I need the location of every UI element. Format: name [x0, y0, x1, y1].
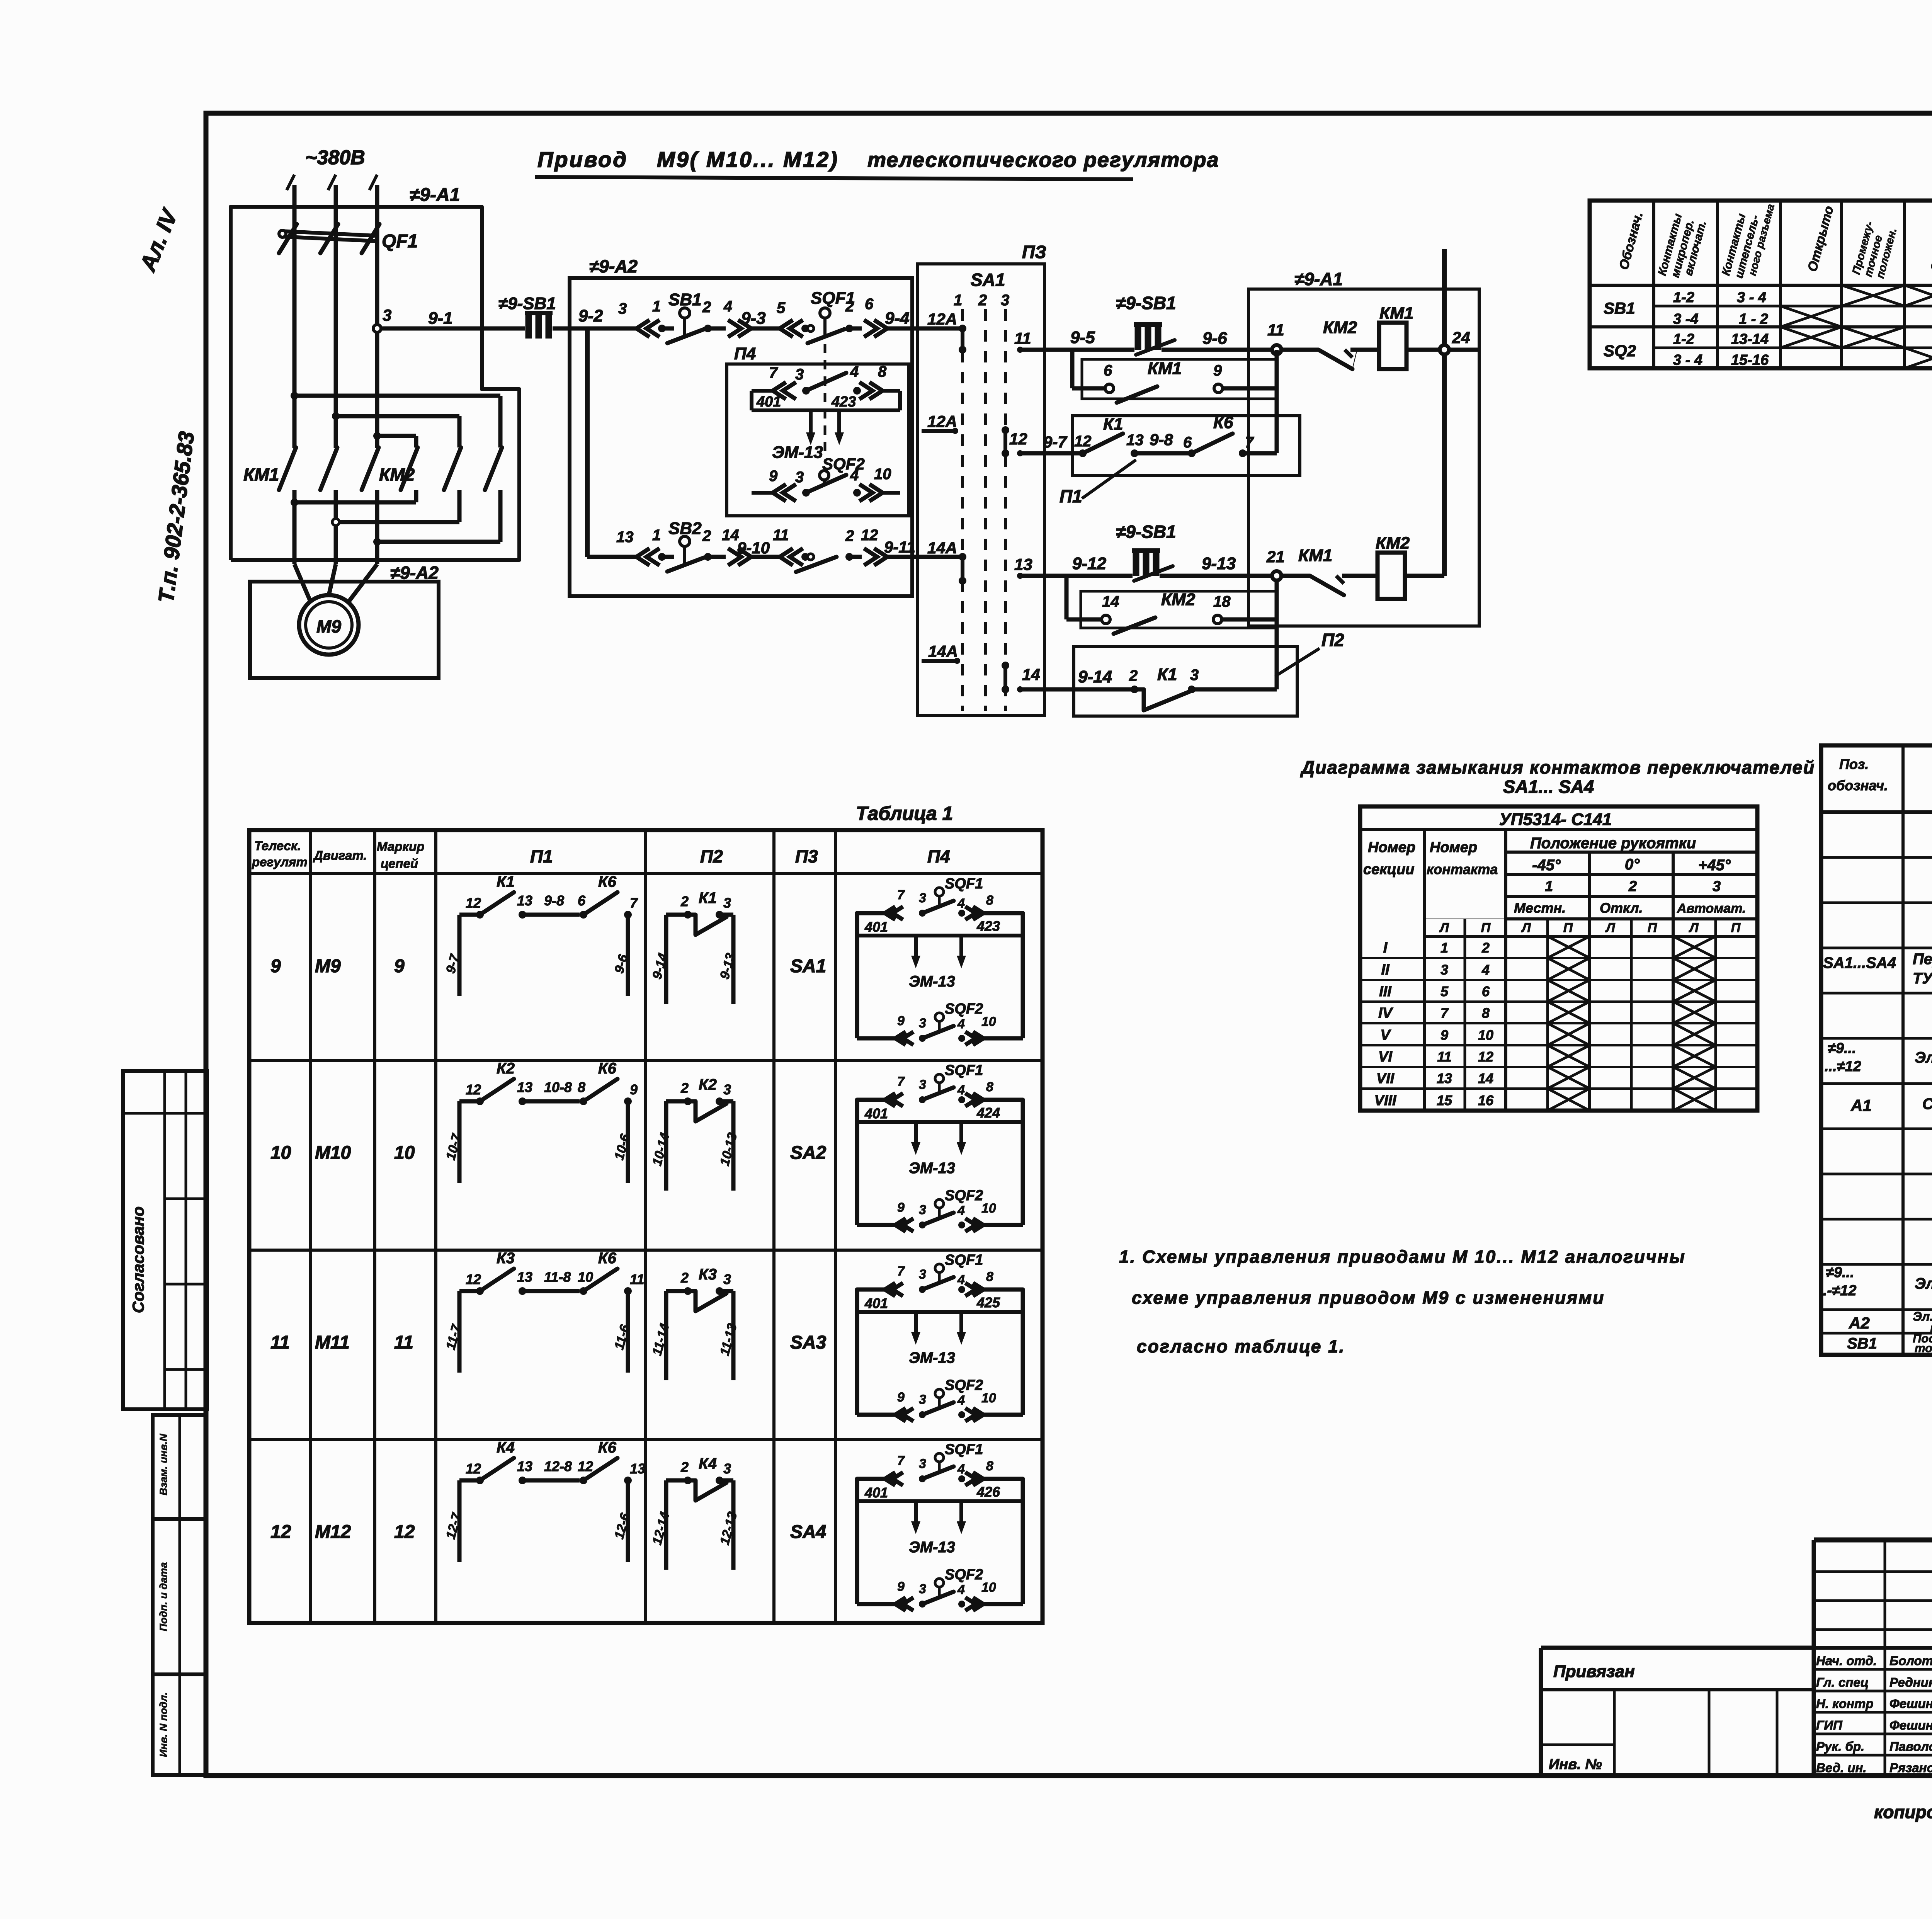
contactor coil KM1: [1379, 304, 1413, 369]
diagram table УП5314-С141: [1360, 806, 1757, 1111]
contact diagram caption: [1300, 757, 1815, 797]
svg-text:КМ2: КМ2: [1376, 534, 1410, 553]
svg-text:12-14: 12-14: [650, 1510, 672, 1546]
svg-text:К1: К1: [1103, 415, 1123, 434]
row 10 labels: [270, 1143, 827, 1163]
svg-text:13: 13: [517, 1079, 532, 1095]
svg-text:Согласовано: Согласовано: [129, 1206, 147, 1313]
svg-text:SQF2: SQF2: [945, 1567, 983, 1583]
wire to SB1: [662, 327, 674, 331]
svg-text:1: 1: [652, 298, 661, 315]
svg-text:КМ2: КМ2: [379, 464, 415, 485]
svg-text:13: 13: [630, 1461, 645, 1477]
svg-text:SA1... SA4: SA1... SA4: [1503, 776, 1594, 797]
row 12 labels: [270, 1522, 826, 1542]
wire 9-13 to node 21: [1160, 554, 1277, 576]
svg-text:10: 10: [874, 466, 891, 483]
svg-text:7: 7: [897, 1074, 905, 1089]
wire 11 / 9-5: [1014, 328, 1134, 353]
svg-text:11: 11: [630, 1271, 644, 1287]
svg-text:2: 2: [845, 527, 854, 544]
svg-text:SA1: SA1: [790, 956, 826, 977]
connector П1 box: [1060, 416, 1300, 506]
row 12 П2 circuit: [650, 1455, 740, 1570]
svg-text:12: 12: [578, 1458, 593, 1474]
riser wire at node 24: [1442, 249, 1447, 576]
margin label T.п.902-2-365.83: [153, 430, 199, 604]
svg-text:4: 4: [957, 1393, 965, 1408]
svg-text:SQF1: SQF1: [945, 1252, 983, 1268]
svg-text:10: 10: [394, 1143, 415, 1163]
item #9...#12 local: [1823, 1264, 1932, 1299]
svg-text:9-12: 9-12: [1072, 554, 1107, 573]
svg-text:К6: К6: [598, 873, 617, 890]
svg-text:3: 3: [919, 1582, 926, 1596]
svg-text:2: 2: [702, 527, 711, 544]
svg-text:КМ2: КМ2: [1161, 590, 1196, 609]
svg-text:13: 13: [1437, 1070, 1452, 1086]
svg-text:10-8: 10-8: [544, 1079, 572, 1095]
svg-text:КМ1: КМ1: [243, 464, 279, 485]
svg-text:8: 8: [986, 893, 993, 908]
svg-text:согласно таблице 1.: согласно таблице 1.: [1137, 1336, 1345, 1356]
svg-text:П4: П4: [734, 344, 756, 363]
svg-text:3: 3: [919, 1267, 926, 1282]
svg-text:10: 10: [981, 1580, 996, 1595]
svg-text:Фешин: Фешин: [1889, 1718, 1932, 1732]
svg-text:3 - 4: 3 - 4: [1673, 352, 1702, 368]
svg-text:3: 3: [919, 1456, 926, 1471]
svg-text:11-8: 11-8: [544, 1269, 571, 1285]
bottom rail pins 13-1: [587, 527, 666, 565]
svg-text:18: 18: [1213, 593, 1231, 610]
svg-text:SA2: SA2: [790, 1143, 827, 1163]
svg-text:SQF1: SQF1: [945, 1062, 983, 1079]
svg-text:9-4: 9-4: [885, 309, 910, 328]
svg-text:3: 3: [919, 1077, 926, 1092]
svg-text:SQF2: SQF2: [945, 1377, 983, 1393]
svg-text:М10: М10: [315, 1143, 351, 1163]
motor assembly box #9-A2: [250, 563, 439, 678]
plug symbol #9-SB1: [498, 294, 556, 339]
socket pins 2-14 / wire 9-10: [704, 527, 770, 565]
svg-text:телескопического регулятора: телескопического регулятора: [867, 148, 1219, 172]
svg-text:+45°: +45°: [1698, 857, 1731, 874]
row 9 П2 circuit: [650, 890, 738, 1004]
svg-text:Фешин: Фешин: [1889, 1696, 1932, 1711]
svg-text:3: 3: [795, 366, 804, 383]
aux contact KM2 (NC): [1281, 318, 1379, 369]
svg-text:1-2: 1-2: [1673, 331, 1694, 347]
svg-text:10: 10: [1478, 1027, 1493, 1043]
net 12 contacts: [1002, 426, 1027, 457]
plug pins 11-1: [751, 527, 814, 565]
svg-text:КМ1: КМ1: [1379, 304, 1413, 323]
svg-text:401: 401: [864, 919, 888, 935]
svg-text:3: 3: [919, 1203, 926, 1217]
svg-text:2: 2: [680, 1459, 689, 1475]
П4 bottom contacts 9-3 / 4-10 with SQF2: [752, 377, 900, 501]
svg-text:К6: К6: [598, 1060, 617, 1077]
svg-text:6: 6: [1482, 983, 1490, 999]
svg-text:Двигат.: Двигат.: [313, 848, 367, 863]
svg-text:2: 2: [1129, 667, 1138, 684]
SQF2 blade on bottom rail: [796, 557, 837, 572]
svg-text:4: 4: [723, 298, 732, 315]
svg-text:14: 14: [722, 527, 739, 544]
svg-text:8: 8: [986, 1269, 993, 1284]
row 12 П1 circuit K contacts: [443, 1439, 645, 1562]
svg-text:14: 14: [1022, 665, 1040, 684]
svg-text:Привод: Привод: [537, 147, 628, 172]
svg-text:К4: К4: [699, 1455, 717, 1472]
svg-text:SВ1: SВ1: [1604, 299, 1635, 317]
svg-text:14: 14: [1478, 1070, 1493, 1086]
parts list table: [1821, 745, 1932, 1355]
svg-text:Номер: Номер: [1430, 839, 1477, 856]
item SB1 post: [1847, 1332, 1932, 1355]
node 21: [1266, 548, 1285, 580]
svg-text:≠9-А2: ≠9-А2: [589, 256, 638, 276]
wire 9-7 / contact K1 pins 12-13: [1017, 415, 1144, 457]
wire 9-3: [741, 309, 780, 328]
svg-text:7: 7: [897, 888, 905, 902]
svg-text:3 - 4: 3 - 4: [1737, 289, 1766, 306]
svg-text:4: 4: [957, 1017, 965, 1031]
svg-text:7: 7: [769, 364, 778, 381]
svg-text:401: 401: [864, 1485, 888, 1500]
SA1 dashed pole 1: [961, 309, 964, 711]
svg-text:9-3: 9-3: [741, 309, 766, 328]
row 10 П1 circuit K contacts: [443, 1060, 638, 1183]
svg-text:1. Схемы управления приводам: 1. Схемы управления приводами М 10... М1…: [1119, 1247, 1686, 1267]
svg-text:копировал:: копировал:: [1874, 1802, 1932, 1822]
SA1 dashed pole 2: [984, 309, 987, 711]
svg-text:1: 1: [652, 527, 661, 544]
row 9 П1 circuit K contacts: [443, 873, 638, 996]
svg-text:2: 2: [680, 1270, 689, 1286]
socket pins 2-4: [704, 298, 751, 337]
svg-text:8: 8: [578, 1079, 585, 1095]
svg-text:Рук. бр.: Рук. бр.: [1816, 1739, 1864, 1754]
svg-text:9-8: 9-8: [544, 893, 564, 908]
svg-text:SQF1: SQF1: [945, 1441, 983, 1458]
svg-text:9: 9: [769, 468, 778, 485]
svg-text:ЭМ-13: ЭМ-13: [909, 1539, 955, 1556]
svg-text:К2: К2: [699, 1076, 717, 1093]
svg-text:423: 423: [976, 918, 1000, 934]
row 11 labels: [270, 1332, 827, 1353]
svg-text:Привязан: Привязан: [1553, 1662, 1635, 1681]
svg-text:13: 13: [1014, 555, 1032, 573]
schematic note text: [1119, 1247, 1686, 1356]
svg-text:ЭМ-13: ЭМ-13: [772, 443, 823, 462]
svg-text:~380В: ~380В: [305, 146, 365, 169]
svg-text:13: 13: [517, 1269, 532, 1285]
svg-text:Местн.: Местн.: [1514, 900, 1566, 916]
svg-text:П2: П2: [1321, 630, 1344, 650]
svg-text:424: 424: [976, 1105, 1000, 1121]
svg-text:9-6: 9-6: [1202, 329, 1227, 348]
svg-text:...≠12: ...≠12: [1825, 1058, 1861, 1075]
wire 9-2 / left drop: [578, 306, 603, 557]
wire 14 / 9-14 / contact K1: [1017, 665, 1277, 710]
svg-text:3: 3: [919, 1392, 926, 1407]
Table 1 caption: [856, 803, 953, 824]
svg-text:≠9-SB1: ≠9-SB1: [1116, 522, 1176, 542]
svg-text:10: 10: [981, 1014, 996, 1029]
plug contact pins 3-1 (top rail): [618, 298, 666, 337]
row 10 П4 circuit EM-13: [857, 1062, 1023, 1232]
svg-text:Л: Л: [1520, 920, 1531, 935]
svg-text:Л: Л: [1688, 920, 1699, 935]
svg-text:13-14: 13-14: [1731, 331, 1769, 347]
svg-text:Н. контр: Н. контр: [1816, 1696, 1873, 1711]
reversing wiring loops: [291, 392, 500, 546]
svg-text:≠9-А2: ≠9-А2: [390, 563, 439, 583]
svg-text:12А: 12А: [927, 412, 957, 430]
connector П2 box: [1074, 630, 1344, 716]
svg-text:ТУ 16-524. 074-75: ТУ 16-524. 074-75: [1913, 970, 1932, 987]
svg-text:425: 425: [976, 1295, 1000, 1310]
svg-text:Нач. отд.: Нач. отд.: [1816, 1654, 1877, 1668]
contactor coil KM2: [1376, 534, 1410, 599]
svg-text:≠9-А1: ≠9-А1: [410, 185, 460, 205]
stamp Подп. и дата: [153, 1519, 206, 1674]
pushbutton SB1: [667, 290, 711, 343]
svg-text:П4: П4: [927, 846, 950, 866]
svg-text:12: 12: [466, 1271, 481, 1287]
bottom margin notes: [1874, 1793, 1932, 1825]
svg-text:6: 6: [1183, 434, 1192, 451]
net 14A entry: [927, 539, 966, 585]
svg-text:15: 15: [1437, 1092, 1452, 1108]
net ~380V label: [305, 146, 365, 169]
svg-text:4: 4: [957, 1582, 965, 1597]
svg-text:Ал. IV: Ал. IV: [135, 205, 183, 276]
node 11: [1267, 321, 1284, 354]
svg-text:9-5: 9-5: [1070, 328, 1095, 347]
svg-text:9: 9: [897, 1390, 905, 1405]
phase wire L2: [328, 175, 336, 448]
circuit breaker QF1: [279, 224, 418, 253]
svg-text:VII: VII: [1376, 1070, 1395, 1087]
svg-text:ГИП: ГИП: [1816, 1718, 1843, 1732]
svg-text:5: 5: [1440, 983, 1449, 999]
svg-text:М12: М12: [315, 1522, 351, 1542]
title block outline: [1541, 1540, 1932, 1776]
svg-text:SA1: SA1: [971, 270, 1005, 290]
phase wire L1: [287, 175, 294, 448]
motor M9: [294, 564, 377, 655]
net 14A stub: [922, 642, 960, 664]
svg-text:13: 13: [616, 529, 634, 546]
svg-text:Вед. ин.: Вед. ин.: [1816, 1761, 1867, 1775]
svg-text:Элементы управления эл.дв 9.: Элементы управления эл.дв 9.. М12: [1915, 1049, 1932, 1066]
wire 13 / 9-12 lower rail: [1014, 554, 1133, 579]
wire 9-6 to node 11: [1162, 329, 1277, 350]
wire coil KM2 to riser: [1405, 574, 1444, 578]
svg-text:3: 3: [383, 306, 391, 324]
svg-text:10: 10: [981, 1201, 996, 1216]
svg-text:11-13: 11-13: [717, 1322, 740, 1357]
svg-text:4: 4: [850, 363, 859, 380]
svg-text:К1: К1: [699, 890, 717, 907]
net 14 contacts: [1002, 662, 1040, 693]
svg-text:401: 401: [864, 1295, 888, 1311]
svg-text:схеме управления приводом М: схеме управления приводом М9 с изменения…: [1132, 1288, 1605, 1308]
row 9 labels: [270, 956, 826, 977]
svg-text:8: 8: [878, 363, 887, 380]
svg-text:SB2: SB2: [668, 519, 702, 538]
svg-text:Рязанова: Рязанова: [1889, 1761, 1932, 1775]
svg-text:21: 21: [1266, 548, 1285, 566]
svg-text:12-8: 12-8: [544, 1458, 572, 1474]
contactor KM1 main contacts: [243, 447, 379, 564]
svg-text:SQF2: SQF2: [822, 455, 865, 473]
svg-text:Подп. и дата: Подп. и дата: [158, 1562, 169, 1631]
svg-text:3: 3: [723, 1271, 731, 1287]
svg-text:К2: К2: [497, 1060, 515, 1077]
svg-text:QF1: QF1: [382, 231, 418, 252]
svg-text:Т.п. 902-2-365.83: Т.п. 902-2-365.83: [153, 430, 199, 604]
phase wire L3: [369, 175, 377, 448]
svg-text:12-13: 12-13: [717, 1510, 740, 1546]
svg-text:11: 11: [773, 527, 789, 544]
svg-text:Редникин: Редникин: [1889, 1675, 1932, 1689]
svg-text:3: 3: [723, 1082, 731, 1097]
svg-text:цепей: цепей: [381, 856, 418, 871]
svg-text:7: 7: [630, 895, 638, 911]
svg-text:9: 9: [630, 1082, 638, 1097]
svg-text:8: 8: [1482, 1005, 1490, 1021]
row 11 П4 circuit EM-13: [857, 1252, 1023, 1421]
svg-text:ЭМ-13: ЭМ-13: [909, 1349, 955, 1366]
svg-text:10: 10: [578, 1269, 593, 1285]
svg-text:К3: К3: [699, 1266, 717, 1283]
svg-text:1: 1: [954, 292, 962, 309]
svg-text:15-16: 15-16: [1731, 352, 1769, 368]
svg-text:14А: 14А: [928, 642, 958, 660]
svg-text:М9: М9: [316, 616, 341, 636]
item SA1...SA4: [1823, 951, 1932, 987]
connector П4 box: [727, 344, 909, 516]
svg-text:I: I: [1383, 940, 1388, 956]
svg-text:SA4: SA4: [790, 1522, 826, 1542]
svg-text:Сборка РТ30 Бл 2: Сборка РТ30 Бл 2: [1922, 1096, 1932, 1113]
svg-text:Элементы управления эл.дв М: Элементы управления эл.дв М9... М12: [1915, 1275, 1932, 1292]
svg-text:II: II: [1381, 962, 1390, 978]
svg-text:ПЗ: ПЗ: [1022, 242, 1046, 262]
svg-text:≠9-А1: ≠9-А1: [1294, 269, 1343, 289]
svg-text:Положение рукоятки: Положение рукоятки: [1530, 835, 1696, 852]
svg-text:Диаграмма замыкания контактов: Диаграмма замыкания контактов переключат…: [1300, 757, 1815, 777]
svg-text:М9( М10... М12): М9( М10... М12): [657, 147, 839, 172]
svg-text:2: 2: [1628, 878, 1637, 895]
svg-text:≠9-SB1: ≠9-SB1: [1116, 293, 1176, 313]
svg-text:12: 12: [466, 1082, 481, 1097]
svg-text:9-1: 9-1: [428, 309, 453, 328]
svg-text:≠9-SB1: ≠9-SB1: [498, 294, 556, 313]
svg-text:5: 5: [777, 299, 786, 316]
svg-text:13: 13: [517, 1458, 532, 1474]
svg-text:8: 8: [986, 1080, 993, 1094]
svg-text:4: 4: [957, 1203, 965, 1218]
svg-text:10: 10: [981, 1391, 996, 1405]
svg-text:Телеск.: Телеск.: [254, 839, 301, 853]
limit switch SQF1: [808, 289, 874, 343]
svg-text:1-2: 1-2: [1673, 289, 1694, 306]
svg-text:3: 3: [919, 1016, 926, 1031]
svg-text:К6: К6: [598, 1439, 617, 1456]
svg-text:3: 3: [919, 891, 926, 905]
svg-text:КМ2: КМ2: [1323, 318, 1357, 337]
svg-text:3: 3: [1190, 667, 1199, 684]
svg-text:11: 11: [1014, 329, 1031, 347]
net 12A entry: [927, 310, 966, 354]
stamp Привязан block: [1541, 1662, 1814, 1776]
svg-text:SQF2: SQF2: [945, 1001, 983, 1017]
svg-text:6: 6: [865, 296, 874, 313]
svg-text:толк. нижн. 1з. 1р ТУ16-526.: толк. нижн. 1з. 1р ТУ16-526. 21 - 71: [1915, 1341, 1932, 1355]
svg-text:секции: секции: [1363, 861, 1415, 878]
svg-text:К4: К4: [497, 1439, 515, 1456]
svg-text:3: 3: [795, 469, 804, 486]
П4 terminals 401 / 423 and EM-13 arrows: [752, 394, 900, 462]
svg-text:П2: П2: [700, 846, 723, 866]
node 24: [1440, 328, 1470, 354]
wire 9-1: [381, 309, 525, 328]
svg-text:контакта: контакта: [1427, 861, 1498, 877]
svg-text:SQ2: SQ2: [1604, 342, 1636, 360]
svg-text:V: V: [1380, 1027, 1391, 1043]
svg-text:9-13: 9-13: [1202, 554, 1236, 573]
svg-text:16: 16: [1478, 1092, 1494, 1108]
svg-text:ЭМ-13: ЭМ-13: [909, 1160, 955, 1177]
svg-text:Переключатель УП5314-С141: Переключатель УП5314-С141: [1913, 951, 1932, 968]
svg-text:Гл. спец: Гл. спец: [1816, 1675, 1869, 1689]
svg-text:2: 2: [845, 298, 854, 315]
svg-text:2: 2: [680, 893, 689, 909]
pushbutton SB2: [662, 519, 711, 572]
SA1 dashed pole 3: [1004, 309, 1007, 711]
svg-text:SA3: SA3: [790, 1332, 827, 1353]
svg-text:П: П: [1648, 920, 1658, 935]
assembly box #9-A1 (control): [1248, 269, 1479, 626]
svg-text:П1: П1: [530, 846, 553, 866]
svg-text:7: 7: [897, 1264, 905, 1279]
svg-text:12: 12: [1074, 433, 1092, 450]
svg-text:П: П: [1481, 920, 1491, 935]
aux contact KM1 (NC) lower: [1281, 546, 1378, 595]
svg-text:4: 4: [1481, 962, 1490, 978]
item #9...#12 panel: [1825, 1040, 1932, 1075]
svg-text:11: 11: [1267, 321, 1284, 339]
svg-text:КМ1: КМ1: [1298, 546, 1332, 565]
sheet frame: [206, 113, 1932, 1776]
svg-text:4: 4: [957, 1273, 965, 1287]
plug symbol #9-SB1 upper: [1116, 293, 1176, 355]
svg-text:Инв. №: Инв. №: [1549, 1756, 1602, 1773]
svg-text:9: 9: [897, 1014, 905, 1028]
contactor KM2 main contacts: [379, 396, 502, 542]
svg-text:Закрыто: Закрыто: [1928, 210, 1932, 273]
KM1 aux holding loop: [1072, 350, 1277, 453]
svg-text:3 -4: 3 -4: [1673, 311, 1698, 327]
svg-text:10-13: 10-13: [717, 1131, 740, 1167]
switch SA1 label: [954, 270, 1009, 309]
svg-text:А1: А1: [1850, 1096, 1872, 1114]
